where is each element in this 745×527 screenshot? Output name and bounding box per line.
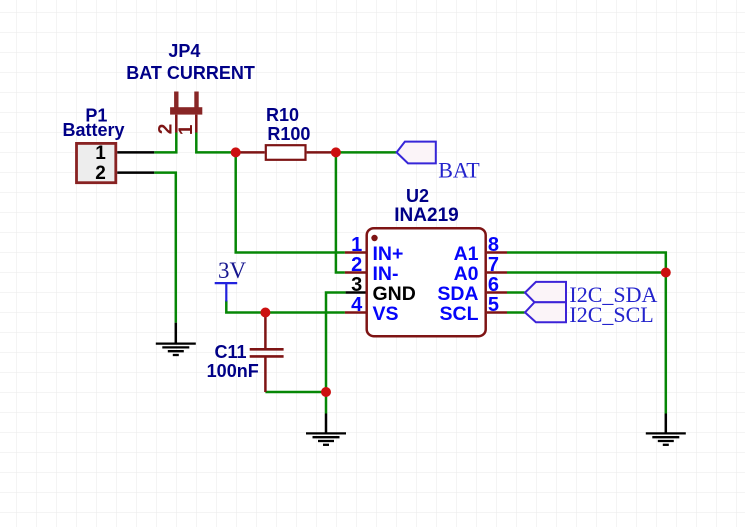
svg-text:1: 1: [351, 234, 362, 256]
svg-text:3: 3: [351, 274, 362, 296]
svg-text:1: 1: [176, 124, 197, 135]
svg-text:4: 4: [351, 294, 363, 316]
svg-text:IN-: IN-: [373, 263, 399, 285]
svg-text:I2C_SCL: I2C_SCL: [569, 302, 653, 327]
svg-text:BAT CURRENT: BAT CURRENT: [126, 63, 255, 83]
svg-text:A1: A1: [454, 243, 479, 265]
svg-text:A0: A0: [454, 263, 479, 285]
svg-text:100nF: 100nF: [207, 361, 259, 381]
svg-text:IN+: IN+: [373, 243, 404, 265]
svg-text:VS: VS: [373, 303, 399, 325]
svg-text:6: 6: [488, 274, 499, 296]
svg-text:R10: R10: [266, 105, 299, 125]
svg-text:2: 2: [351, 254, 362, 276]
svg-text:SCL: SCL: [440, 303, 479, 325]
svg-text:1: 1: [95, 143, 106, 164]
svg-text:GND: GND: [373, 283, 416, 305]
svg-text:BAT: BAT: [438, 157, 480, 182]
svg-text:3V: 3V: [218, 258, 247, 283]
svg-text:INA219: INA219: [394, 205, 458, 226]
svg-text:R100: R100: [267, 124, 310, 144]
svg-text:2: 2: [95, 163, 106, 184]
svg-text:Battery: Battery: [62, 120, 124, 140]
svg-text:JP4: JP4: [168, 41, 200, 61]
svg-text:2: 2: [155, 124, 176, 135]
svg-text:SDA: SDA: [437, 283, 478, 305]
svg-text:U2: U2: [406, 186, 429, 206]
svg-text:C11: C11: [214, 342, 246, 362]
svg-text:7: 7: [488, 254, 499, 276]
svg-text:8: 8: [488, 234, 499, 256]
svg-text:5: 5: [488, 294, 499, 316]
